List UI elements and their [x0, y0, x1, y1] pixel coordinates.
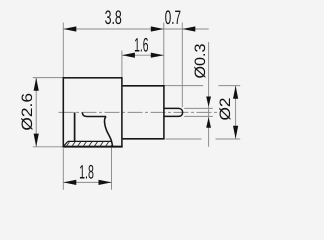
svg-text:1.8: 1.8	[79, 161, 94, 183]
svg-text:3.8: 3.8	[105, 7, 122, 29]
svg-text:0.7: 0.7	[165, 7, 181, 29]
svg-text:Ø0.3: Ø0.3	[192, 44, 209, 79]
svg-text:Ø2.6: Ø2.6	[19, 93, 36, 131]
svg-text:1.6: 1.6	[134, 35, 148, 57]
svg-text:Ø2: Ø2	[217, 98, 234, 121]
